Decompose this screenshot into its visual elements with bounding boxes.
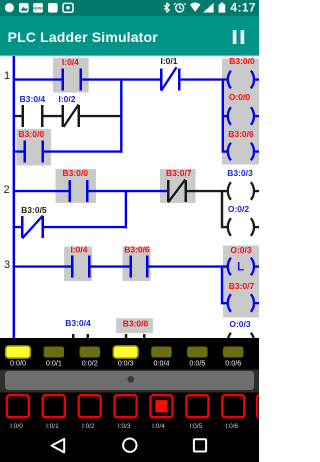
- svg-text:4:17: 4:17: [230, 0, 256, 14]
- svg-text:NOW: NOW: [33, 6, 43, 11]
- svg-text:B3:0/4: B3:0/4: [20, 94, 46, 104]
- svg-text:2: 2: [4, 184, 10, 196]
- wire rung2 row2 right: [44, 226, 127, 228]
- contact B3:0/6 rung3 (highlighted): [124, 244, 150, 277]
- svg-text:B3:0/0: B3:0/0: [229, 56, 255, 66]
- svg-text:0:0/6: 0:0/6: [225, 358, 241, 367]
- LED O:0/3 on: [113, 346, 137, 358]
- svg-text:I:0/4: I:0/4: [62, 57, 79, 67]
- wire rung1 row2 (black branch): [15, 115, 22, 117]
- coil group rung1 (highlighted stack): [222, 78, 224, 152]
- contact I:0/2 NC rung1: [58, 94, 80, 127]
- contact I:0/1 NC rung1: [160, 56, 181, 91]
- highlight box contact I:0/4 rung1: [53, 58, 89, 93]
- svg-text:1: 1: [4, 70, 10, 82]
- highlight box coil stack rung3: [223, 246, 259, 318]
- svg-text:I:0/5: I:0/5: [190, 423, 203, 430]
- wire rung2 row1 mid: [89, 190, 168, 192]
- LED O:0/5 off: [187, 347, 208, 358]
- contact I:0/4 rung1 (highlighted): [62, 57, 83, 91]
- highlight box contact B3:0/6 rung3: [123, 247, 151, 282]
- LED O:0/4 off: [151, 347, 172, 358]
- svg-text:0:0/1: 0:0/1: [46, 358, 62, 367]
- divider thumb: [5, 371, 254, 390]
- junction vertical rung2 left branch: [125, 190, 127, 228]
- wire rung1 row1 right segment: [181, 78, 224, 80]
- svg-text:I:0/0: I:0/0: [10, 423, 23, 430]
- svg-text:I:0/3: I:0/3: [118, 423, 131, 430]
- wire rung1 row3 segments: [15, 150, 24, 152]
- svg-text:B3:0/0: B3:0/0: [19, 129, 45, 139]
- contact B3:0/7 NC rung2 (highlighted): [166, 168, 192, 202]
- wire rung3 row1 left: [15, 265, 71, 267]
- highlight box contact B3:0/0 rung3 bottom: [116, 318, 153, 333]
- svg-text:I:0/2: I:0/2: [82, 423, 95, 430]
- svg-text:0:0/5: 0:0/5: [189, 358, 205, 367]
- divider band: [0, 370, 259, 393]
- junction vertical rung1: [120, 78, 122, 152]
- LED O:0/6 off: [223, 347, 244, 358]
- divider dot: [127, 376, 134, 383]
- svg-text:O:0/0: O:0/0: [229, 92, 251, 102]
- LED O:0/2 off: [80, 347, 101, 358]
- contact I:0/4 rung3 (highlighted): [70, 244, 90, 277]
- svg-text:B3:0/0: B3:0/0: [123, 319, 149, 329]
- highlight box contact I:0/4 rung3: [64, 247, 92, 282]
- svg-text:B3:0/5: B3:0/5: [21, 205, 47, 215]
- wire rung3 row1 mid: [91, 265, 130, 267]
- contact B3:0/5 NC rung2: [21, 205, 47, 238]
- app bar: [0, 16, 259, 57]
- highlight box contact B3:0/0 rung2: [56, 169, 97, 203]
- LED O:0/1 off: [44, 347, 65, 358]
- svg-text:B3:0/4: B3:0/4: [65, 318, 91, 328]
- coil B3:0/0 rung1: [224, 56, 259, 89]
- button I:0/1: [43, 395, 65, 417]
- highlight box contact B3:0/0 rung1 row3: [17, 129, 52, 166]
- nav back: [52, 439, 65, 453]
- button labels: [10, 423, 238, 430]
- svg-text:0:0/4: 0:0/4: [154, 358, 170, 367]
- coil O:0/2 rung2: [223, 204, 259, 236]
- coil O:0/3 latch rung3: [223, 245, 259, 275]
- wire rung1 row1 left segment: [15, 78, 62, 80]
- button I:0/2: [79, 395, 101, 417]
- svg-text:O:0/3: O:0/3: [229, 319, 251, 329]
- coil stack rung3 (highlighted): [221, 265, 223, 304]
- svg-text:B3:0/7: B3:0/7: [229, 281, 255, 291]
- pause button: [233, 30, 244, 44]
- nav home: [123, 439, 136, 452]
- wire rung1 row2 right: [80, 115, 123, 117]
- button I:0/6: [222, 395, 244, 417]
- svg-text:O:0/2: O:0/2: [228, 204, 250, 214]
- rung3 bottom branch: contact B3:0/0 (highlighted, partially hidden): [123, 319, 149, 356]
- svg-text:3: 3: [4, 259, 10, 271]
- LED labels: [10, 358, 241, 367]
- button I:0/3: [115, 395, 137, 417]
- svg-text:I:0/1: I:0/1: [46, 423, 59, 430]
- highlight box coil stack rung1: [222, 59, 259, 165]
- wire rung1 row1 mid segment: [82, 78, 161, 80]
- LED O:0/0 on: [6, 346, 31, 358]
- contact B3:0/0 rung2 (highlighted): [62, 168, 88, 202]
- button partial 8th: [257, 395, 269, 417]
- highlight box contact B3:0/7 rung2: [160, 169, 196, 203]
- button I:0/5: [186, 395, 208, 417]
- coil B3:0/3 rung2: [223, 168, 259, 200]
- svg-text:0:0/0: 0:0/0: [10, 358, 26, 367]
- svg-text:I:0/2: I:0/2: [58, 94, 75, 104]
- contact B3:0/4 rung1: [20, 94, 46, 127]
- svg-text:B3:0/0: B3:0/0: [62, 168, 88, 178]
- svg-text:B3:0/3: B3:0/3: [227, 168, 253, 178]
- button I:0/0: [7, 395, 29, 417]
- svg-text:0:0/2: 0:0/2: [82, 358, 98, 367]
- svg-text:I:0/4: I:0/4: [70, 244, 87, 254]
- status bar: [0, 0, 259, 16]
- wire rung2 row1 right (black): [187, 190, 223, 192]
- nav recents: [194, 439, 206, 451]
- junction vertical rung2 coils (black): [221, 190, 223, 228]
- svg-text:0:0/3: 0:0/3: [118, 358, 134, 367]
- coil B3:0/7 rung3: [223, 281, 259, 312]
- contact B3:0/0 rung1 row3 (highlighted): [19, 129, 45, 163]
- svg-text:L: L: [237, 261, 244, 273]
- rung3 bottom: coil O:0/3 unlatch (partially hidden): [228, 319, 254, 350]
- status right icons: [164, 0, 256, 14]
- left power rail: [13, 56, 16, 338]
- coil O:0/0 rung1: [224, 92, 259, 125]
- wire rung2 row2: [15, 226, 21, 228]
- rung3 bottom branch: contact B3:0/4 (partially hidden): [65, 318, 91, 355]
- svg-text:O:0/3: O:0/3: [230, 245, 252, 255]
- coil B3:0/6 rung1: [224, 129, 259, 160]
- svg-text:B3:0/7: B3:0/7: [166, 168, 192, 178]
- svg-text:I:0/4: I:0/4: [152, 423, 165, 430]
- wire rung3 row1 right: [149, 265, 224, 267]
- wire rung1 row2 mid: [44, 115, 62, 117]
- svg-text:I:0/1: I:0/1: [160, 56, 177, 66]
- svg-text:PLC Ladder Simulator: PLC Ladder Simulator: [8, 29, 159, 45]
- svg-text:I:0/6: I:0/6: [225, 423, 238, 430]
- wire rung2 row1 left: [15, 190, 69, 192]
- svg-text:B3:0/6: B3:0/6: [228, 129, 254, 139]
- button I:0/4 pressed: [151, 395, 173, 417]
- svg-text:B3:0/6: B3:0/6: [124, 244, 150, 254]
